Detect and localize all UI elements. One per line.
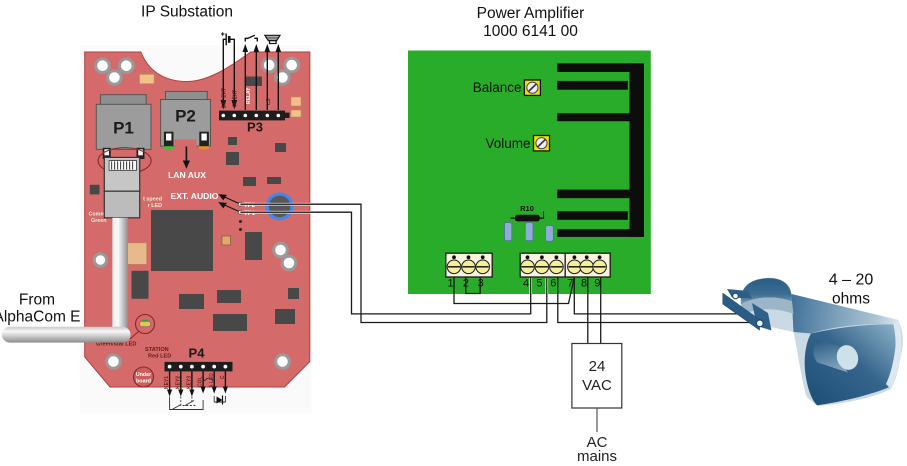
svg-text:7: 7 [567, 278, 573, 290]
svg-text:24V EXT: 24V EXT [222, 88, 228, 108]
svg-text:KEY3: KEY3 [187, 376, 193, 389]
svg-text:4: 4 [523, 278, 529, 290]
svg-text:LS: LS [266, 98, 272, 105]
svg-text:P1: P1 [113, 119, 134, 138]
svg-text:24: 24 [589, 358, 606, 375]
svg-text:Balance: Balance [473, 80, 522, 95]
svg-text:9: 9 [594, 278, 600, 290]
svg-text:0V EXT: 0V EXT [233, 90, 239, 107]
svg-text:KEY1: KEY1 [164, 376, 170, 389]
svg-text:A LED: A LED [209, 373, 215, 388]
svg-text:P2: P2 [175, 107, 196, 126]
svg-text:t speed: t speed [143, 197, 162, 203]
svg-text:Green: Green [91, 218, 107, 224]
svg-text:EXT. AUDIO: EXT. AUDIO [171, 191, 219, 201]
svg-text:STATION: STATION [145, 347, 169, 353]
svg-text:Comm: Comm [89, 212, 106, 218]
svg-text:LAN AUX: LAN AUX [168, 170, 206, 180]
svg-text:1000 6141 00: 1000 6141 00 [483, 23, 578, 40]
svg-text:C: C [220, 375, 226, 379]
svg-text:r LED: r LED [148, 203, 162, 209]
svg-text:R10: R10 [520, 204, 534, 213]
svg-text:COL: COL [198, 376, 204, 387]
svg-text:Under: Under [136, 372, 152, 378]
svg-text:board: board [136, 379, 151, 385]
svg-text:P4: P4 [189, 346, 206, 361]
svg-text:mains: mains [577, 448, 617, 465]
svg-text:6: 6 [550, 278, 556, 290]
svg-text:RELAY: RELAY [246, 87, 252, 104]
svg-text:Power Amplifier: Power Amplifier [477, 5, 585, 22]
svg-text:From: From [19, 292, 55, 309]
svg-text:P3: P3 [247, 120, 263, 135]
svg-text:ohms: ohms [832, 290, 870, 307]
svg-text:8: 8 [581, 278, 587, 290]
svg-text:Volume: Volume [485, 136, 530, 151]
svg-text:2: 2 [463, 278, 469, 290]
svg-text:4 – 20: 4 – 20 [829, 271, 874, 288]
svg-text:KEY2: KEY2 [175, 376, 181, 389]
svg-text:Red LED: Red LED [148, 354, 171, 360]
svg-text:AlphaCom E: AlphaCom E [0, 309, 81, 326]
svg-text:5: 5 [536, 278, 542, 290]
svg-text:IP Substation: IP Substation [141, 4, 233, 21]
svg-text:3: 3 [478, 278, 484, 290]
svg-text:VAC: VAC [582, 377, 612, 394]
svg-text:1: 1 [447, 278, 453, 290]
